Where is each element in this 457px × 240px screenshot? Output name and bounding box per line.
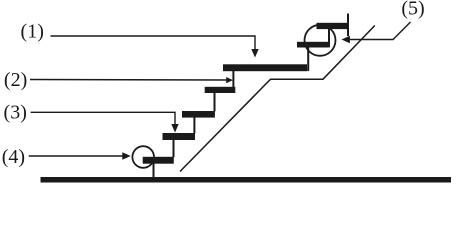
top end post	[347, 14, 349, 37]
arrowhead (3)	[171, 124, 178, 133]
svg-text:(5): (5)	[401, 0, 424, 20]
tread T2	[163, 133, 196, 140]
leader (5)	[349, 22, 411, 40]
tread T3	[182, 111, 215, 118]
tread T5 (landing)	[223, 64, 307, 71]
leader (3)	[31, 112, 175, 124]
riser T3-T4	[214, 93, 216, 112]
riser T5-T6	[307, 47, 309, 71]
tread T6	[297, 42, 328, 48]
tread T7 (top step)	[317, 23, 349, 29]
arrowhead (4)	[122, 152, 130, 159]
leader (2)	[30, 79, 227, 82]
riser T4-T5	[232, 71, 234, 87]
detail circle at (4)	[132, 146, 154, 168]
stringer outline polyline	[180, 26, 375, 172]
arrowhead (1)	[251, 49, 258, 58]
detail circle at (5)	[305, 25, 336, 56]
ground line	[41, 177, 452, 183]
riser T2-T3	[193, 117, 195, 133]
leader (1)	[51, 36, 256, 50]
arrowhead (2)	[226, 77, 233, 83]
arrowhead (5)	[342, 36, 350, 43]
riser T1-T2	[173, 140, 175, 157]
tread T1 (bottom step)	[143, 157, 174, 164]
svg-text:(2): (2)	[4, 69, 27, 91]
svg-text:(3): (3)	[4, 101, 27, 123]
riser T6-T7	[328, 29, 330, 48]
tread T4	[205, 87, 236, 93]
svg-text:(4): (4)	[2, 146, 25, 168]
leader (4)	[29, 155, 123, 157]
riser below T1	[153, 163, 155, 178]
svg-text:(1): (1)	[21, 20, 44, 42]
